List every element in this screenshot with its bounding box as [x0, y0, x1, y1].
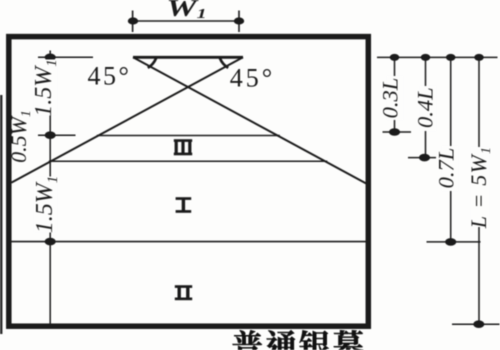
right dims: top tick line [377, 56, 498, 58]
hall outline rectangle [9, 37, 369, 327]
char MU [333, 330, 363, 350]
dot top of 0.7L line [446, 54, 456, 61]
W1 left dot [128, 17, 138, 24]
W1 right tick [238, 11, 240, 33]
left dot mid [45, 131, 56, 139]
char YIN [300, 330, 330, 350]
left mid tick [38, 134, 76, 136]
0.7L bottom tick + dot [427, 241, 481, 243]
char PU [233, 330, 262, 350]
caption 'pu tong yin mu' (ordinary screen), drawn as glyph paths [233, 330, 364, 350]
left dimension vertical line [49, 51, 51, 324]
svg-text:W1: W1 [166, 0, 206, 21]
scan artifact left edge strip [0, 95, 2, 334]
right vertical 0.3L [394, 57, 396, 132]
zone label III [174, 139, 192, 155]
svg-text:L = 5W1: L = 5W1 [466, 146, 494, 229]
svg-text:0.4L: 0.4L [413, 87, 438, 128]
dot top of 0.4L line [421, 54, 431, 61]
screen line [133, 56, 243, 59]
0.4L bottom tick + dot [408, 157, 436, 159]
W1 right dot [234, 17, 244, 24]
svg-text:0.5W1: 0.5W1 [6, 110, 34, 163]
45 deg arc right [220, 58, 228, 68]
left dot at I/II line [45, 238, 56, 246]
W1 left tick [132, 11, 134, 33]
left dot top [45, 54, 56, 62]
zone label I [176, 197, 192, 213]
svg-text:1.5W1: 1.5W1 [31, 59, 60, 117]
left top tick [38, 56, 93, 58]
svg-text:45°: 45° [230, 64, 275, 93]
right vertical 0.4L [425, 57, 427, 157]
right vertical 0.7L [450, 57, 452, 242]
right vertical L=5W1 [478, 57, 480, 324]
zone label II [175, 285, 192, 300]
white backgrounds under rotated labels [34, 60, 489, 233]
dot top of L line [474, 54, 484, 61]
45 deg arc left [148, 58, 156, 68]
zone line III bottom (0.4L level) [49, 160, 328, 162]
dot top of 0.3L line [390, 54, 400, 61]
diagonal B from screen right end to left wall [11, 57, 243, 182]
zone line III top (0.3L level) [97, 135, 280, 137]
svg-text:0.7L: 0.7L [434, 148, 459, 189]
char TONG [266, 330, 296, 350]
0.3L bottom tick + dot [383, 131, 412, 133]
L bottom tick + dot [452, 323, 500, 325]
svg-text:1.5W1: 1.5W1 [32, 176, 61, 234]
zone line I/II boundary (0.7L level) [12, 241, 367, 243]
svg-text:0.3L: 0.3L [378, 78, 403, 119]
W1 dimension line [133, 20, 239, 22]
diagonal A from screen left end to right wall [133, 57, 366, 183]
svg-text:45°: 45° [88, 62, 132, 91]
